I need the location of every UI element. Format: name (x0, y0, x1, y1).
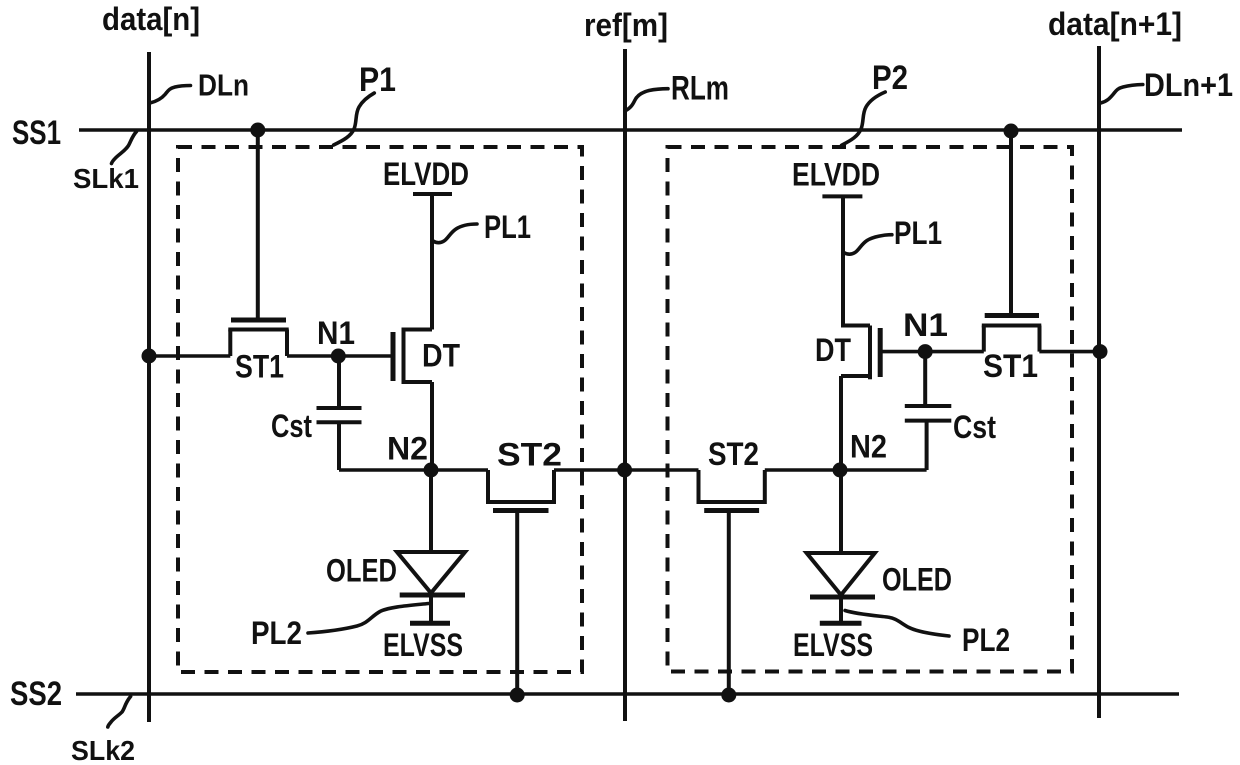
svg-text:PL1: PL1 (484, 209, 531, 245)
svg-text:DT: DT (815, 332, 851, 368)
svg-text:DT: DT (422, 338, 460, 374)
svg-text:ref[m]: ref[m] (584, 7, 668, 43)
svg-text:Cst: Cst (271, 408, 312, 444)
svg-text:SS2: SS2 (10, 675, 62, 713)
svg-text:N1: N1 (903, 307, 948, 343)
svg-text:ELVDD: ELVDD (383, 156, 469, 192)
svg-text:ELVDD: ELVDD (792, 157, 880, 193)
svg-text:ST1: ST1 (983, 348, 1038, 384)
svg-text:OLED: OLED (326, 553, 397, 589)
svg-text:ST2: ST2 (708, 436, 759, 472)
svg-text:ELVSS: ELVSS (383, 627, 463, 663)
svg-text:ELVSS: ELVSS (793, 627, 873, 663)
svg-text:SLk1: SLk1 (73, 163, 139, 194)
svg-text:DLn: DLn (198, 68, 249, 103)
svg-text:data[n+1]: data[n+1] (1048, 6, 1182, 42)
svg-text:Cst: Cst (953, 409, 996, 445)
svg-text:PL1: PL1 (894, 215, 942, 251)
svg-text:P1: P1 (359, 61, 396, 99)
svg-text:N2: N2 (850, 429, 887, 465)
svg-text:N1: N1 (317, 315, 355, 351)
svg-text:PL2: PL2 (251, 615, 302, 651)
svg-text:ST2: ST2 (497, 437, 562, 473)
svg-text:RLm: RLm (671, 70, 729, 108)
svg-text:PL2: PL2 (962, 622, 1010, 658)
svg-text:OLED: OLED (882, 562, 952, 598)
svg-text:SLk2: SLk2 (71, 735, 135, 765)
svg-text:SS1: SS1 (12, 114, 61, 152)
svg-text:N2: N2 (387, 431, 428, 467)
svg-text:ST1: ST1 (235, 349, 284, 385)
svg-text:P2: P2 (872, 59, 908, 97)
svg-text:data[n]: data[n] (102, 1, 200, 37)
svg-text:DLn+1: DLn+1 (1144, 67, 1233, 103)
